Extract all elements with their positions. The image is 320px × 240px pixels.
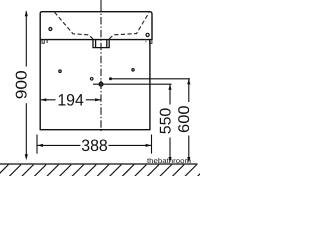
svg-text:550: 550 [157,107,174,134]
dimension 600 line [188,79,190,157]
mounting hole right [132,69,134,71]
reference dot 600 [109,77,112,80]
floor hatching [0,165,209,177]
right clip tabs [150,40,152,44]
drain box [93,40,109,48]
floor line [0,163,198,165]
leader line 600 [111,78,191,80]
overflow hole right [146,33,149,36]
bowl hidden line right [109,13,149,39]
dimension 388 line [37,144,151,146]
svg-text:388: 388 [81,137,108,155]
dimension 388 extension lines [37,135,152,154]
dimension 550 line [169,84,171,157]
svg-text:900: 900 [14,70,31,99]
left clip tabs [42,40,44,44]
svg-text:600: 600 [176,105,193,133]
small hole near center [90,78,93,81]
fixing hole left [49,28,52,31]
bowl hidden line left [55,12,94,39]
dimension 900 line [25,11,27,155]
drain point crosshair [99,82,103,86]
pedestal outline [40,40,150,130]
svg-text:194: 194 [57,92,84,110]
dimension 194 line [41,99,101,101]
mounting hole left [59,70,61,72]
washbasin outline [40,12,152,40]
centerline CL [100,0,102,12]
leader line 550 [93,83,172,85]
